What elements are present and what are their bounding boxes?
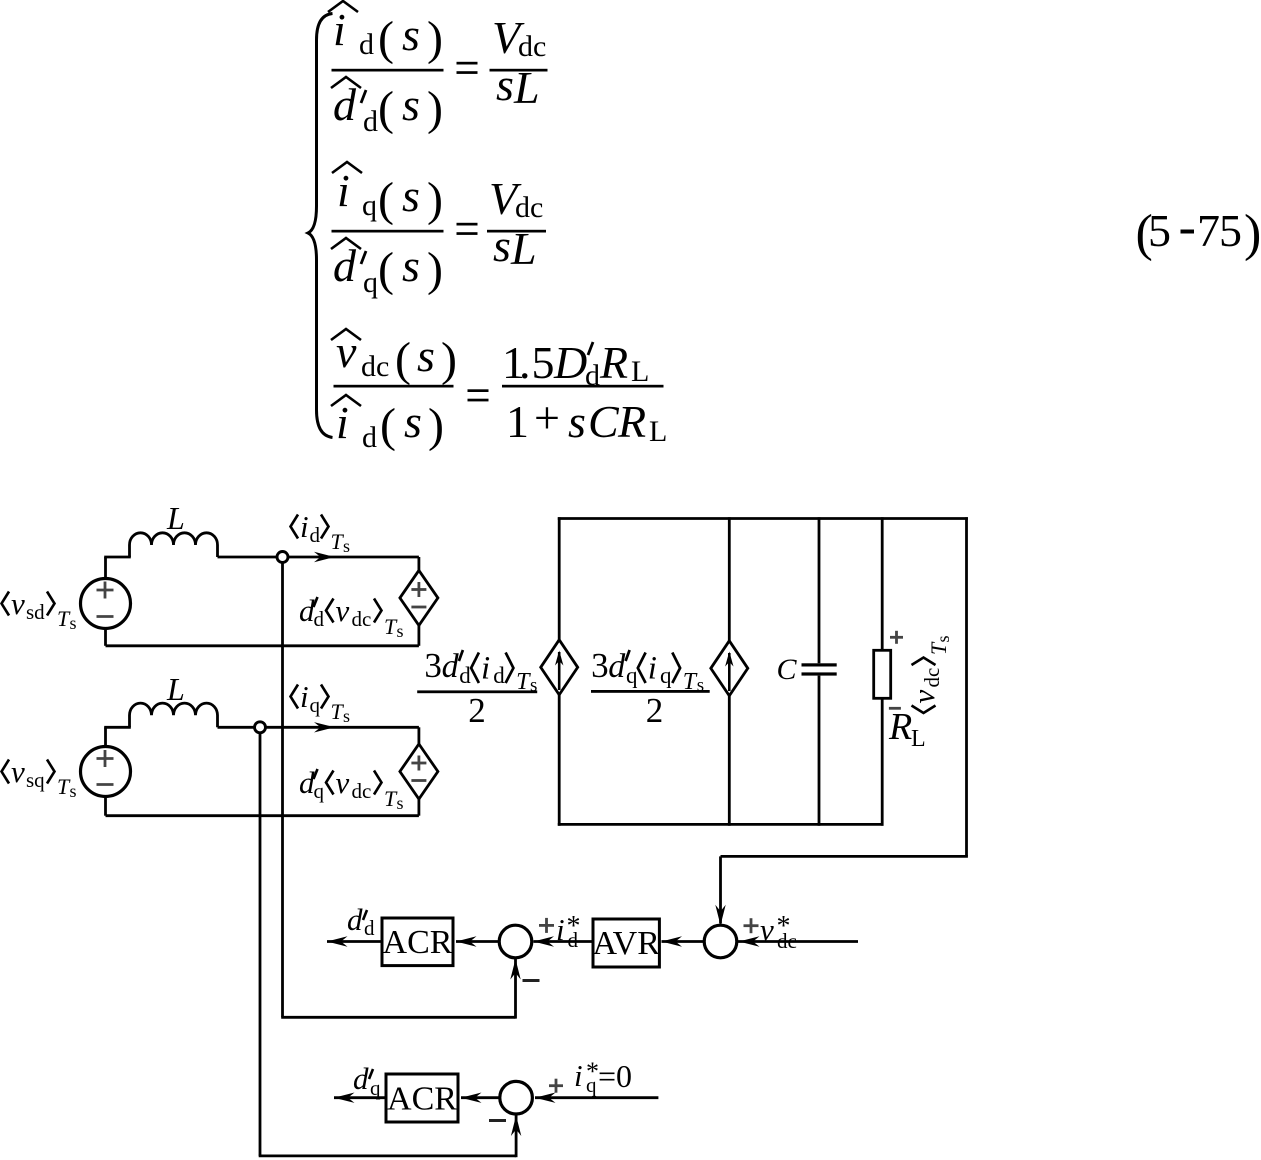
node i_d (small circle) — [277, 552, 288, 563]
svg-text:q: q — [363, 266, 378, 299]
dependent source plus mark (q) — [411, 762, 426, 765]
svg-text:sq: sq — [26, 768, 45, 792]
dependent voltage source d'_d<v_dc>Ts diamond — [400, 570, 438, 625]
label plus polarity (v_dc) — [890, 636, 903, 639]
wire: branch q-source vertical lower — [728, 696, 731, 826]
svg-text:d: d — [364, 916, 375, 940]
svg-text:d: d — [353, 1061, 369, 1096]
svg-text:3: 3 — [424, 646, 442, 685]
svg-text:7: 7 — [1197, 205, 1220, 256]
svg-text:(: ( — [378, 243, 394, 296]
svg-text:i: i — [300, 509, 309, 544]
svg-text:s: s — [404, 396, 422, 447]
voltage source Vsq plus mark — [97, 757, 114, 760]
svg-text:d: d — [314, 607, 325, 631]
wire: i_q feedback vertical from node — [259, 733, 262, 1156]
wire: v_dc sense right edge — [965, 517, 968, 856]
svg-text:+: + — [534, 392, 560, 443]
svg-text:d: d — [442, 648, 460, 685]
svg-text:5: 5 — [1148, 205, 1171, 256]
svg-text:AVR: AVR — [592, 925, 660, 962]
dependent source minus mark (d) — [411, 606, 426, 609]
wire: q-loop top left segment — [104, 726, 131, 729]
svg-text:L: L — [631, 355, 649, 388]
svg-text:s: s — [343, 706, 350, 726]
svg-text:s: s — [417, 330, 435, 381]
wire: diamond bottom stub (d) — [417, 625, 420, 645]
svg-text:5: 5 — [1219, 205, 1242, 256]
label minus polarity (v_dc) — [889, 707, 901, 710]
svg-text:q: q — [586, 1073, 597, 1097]
inductor L (d-axis) — [130, 533, 218, 557]
wire and arrow: i_q feedback rise into S3 — [515, 1116, 518, 1158]
equation 2 fraction bar (lhs) — [332, 230, 444, 233]
wire and arrow: v_dc* input into summer2 — [737, 940, 858, 943]
svg-text:s: s — [402, 170, 420, 221]
svg-text:d: d — [608, 648, 626, 685]
svg-text:i: i — [336, 397, 349, 448]
equation 3 denominator: hat i_d(s) — [331, 395, 361, 406]
svg-text:d: d — [359, 28, 374, 61]
svg-text:C: C — [777, 653, 798, 686]
svg-text:): ) — [427, 82, 443, 135]
node i_q (small circle) — [255, 722, 266, 733]
svg-text:1: 1 — [506, 396, 529, 447]
voltage source Vsd minus mark — [97, 615, 114, 618]
svg-text:ACR: ACR — [383, 924, 453, 961]
svg-text:v: v — [336, 593, 350, 628]
wire: load branch lower — [881, 698, 884, 825]
wire: diamond top stub (q) — [417, 727, 420, 744]
svg-text:s: s — [402, 79, 420, 130]
current source arrow (d) — [558, 652, 561, 690]
svg-text:q: q — [310, 693, 321, 717]
wire: v_dc sense drop into summer — [719, 856, 722, 923]
svg-text:d: d — [493, 663, 505, 688]
svg-text:2: 2 — [468, 691, 486, 730]
svg-text:L: L — [166, 500, 185, 536]
svg-text:): ) — [441, 333, 457, 386]
svg-text:5: 5 — [532, 337, 555, 388]
svg-text:D: D — [553, 337, 587, 388]
svg-text:(: ( — [380, 399, 396, 452]
svg-text:dc: dc — [352, 607, 372, 631]
wire and arrow: d'_q output — [334, 1096, 386, 1099]
svg-text:(: ( — [378, 12, 394, 65]
equation 3 numerator: hat v_dc(s) — [331, 329, 361, 340]
wire and arrow: d'_d output — [327, 940, 382, 943]
wire: q-loop left vertical — [104, 727, 107, 747]
svg-text:R: R — [888, 706, 912, 748]
svg-text:2: 2 — [646, 691, 664, 730]
svg-text:): ) — [427, 173, 443, 226]
equation 3 equals sign — [468, 389, 489, 392]
equation 1 equals sign — [457, 62, 478, 65]
block ACR (q-axis) — [386, 1074, 458, 1122]
wire and arrow: summer1 to ACR — [456, 940, 499, 943]
svg-text:q: q — [370, 1076, 381, 1100]
wire: dc bus top — [558, 517, 968, 520]
fraction bar (3d'_d<i_d>Ts/2) — [417, 690, 537, 693]
voltage source Vsd circle — [81, 579, 131, 629]
svg-text:v: v — [11, 586, 25, 621]
current source arrow (q) — [728, 653, 731, 691]
svg-text:d: d — [459, 663, 471, 688]
wire and arrow: AVR to summer1 — [534, 940, 594, 943]
svg-text:s: s — [493, 220, 511, 271]
dependent source minus mark (q) — [411, 779, 426, 782]
svg-text:i: i — [574, 1058, 583, 1093]
svg-text:): ) — [427, 243, 443, 296]
svg-text:): ) — [427, 12, 443, 65]
label minus at S3 feedback — [489, 1119, 506, 1122]
voltage source Vsd plus mark — [97, 589, 114, 592]
svg-text:R: R — [617, 396, 646, 447]
wire: d-loop top right segment — [218, 556, 419, 559]
wire: d-loop bottom — [106, 644, 419, 647]
svg-text:q: q — [660, 663, 672, 688]
wire and arrow: summer3 to ACR — [461, 1096, 500, 1099]
svg-text:=: = — [598, 1058, 616, 1094]
block ACR (d-axis) — [382, 918, 453, 966]
svg-text:dc: dc — [515, 191, 543, 224]
summing junction S1 — [499, 925, 532, 958]
svg-text:v: v — [11, 754, 25, 789]
wire: dc bus left edge lower — [558, 695, 561, 826]
wire: d-loop top left segment — [104, 556, 131, 559]
dependent voltage source d'_q<v_dc>Ts diamond — [400, 744, 438, 799]
svg-text:dc: dc — [361, 350, 389, 383]
label <v_sq>Ts — [2, 760, 10, 784]
svg-text:C: C — [588, 396, 620, 447]
current arrow i_d — [314, 552, 335, 562]
svg-text:s: s — [70, 613, 77, 633]
label plus at S2 — [744, 924, 759, 927]
svg-text:i: i — [648, 651, 657, 687]
svg-text:i: i — [300, 679, 309, 714]
svg-text:v: v — [336, 326, 357, 377]
equation 3 fraction bar (lhs) — [334, 385, 454, 388]
svg-text:q: q — [362, 189, 377, 222]
wire: dc bus left edge upper — [558, 517, 561, 640]
dependent source plus mark (d) — [411, 588, 426, 591]
fraction bar (3d'_q<i_q>Ts/2) — [591, 690, 710, 693]
label <v_dc>Ts rotated 90deg — [906, 635, 953, 713]
equation 2 numerator: hat i_q(s) — [332, 162, 362, 173]
label minus at S1 feedback — [523, 979, 540, 982]
wire and arrow: input into summer3 — [535, 1096, 658, 1099]
wire: dc bus bottom — [558, 823, 884, 826]
svg-text:(: ( — [378, 82, 394, 135]
svg-text:3: 3 — [591, 646, 609, 685]
wire: q-loop bottom — [106, 814, 419, 817]
label <v_sd>Ts — [2, 592, 10, 616]
equation 1 fraction bar (lhs) — [332, 69, 444, 72]
wire: capacitor branch lower — [818, 676, 821, 826]
label <i_d>Ts — [291, 515, 299, 539]
wire: d-loop left vertical — [104, 557, 107, 579]
capacitor C plates — [802, 663, 837, 666]
svg-text:(: ( — [395, 333, 411, 386]
svg-text:s: s — [933, 635, 953, 642]
svg-text:s: s — [343, 536, 350, 556]
svg-text:s: s — [70, 781, 77, 801]
svg-text:R: R — [599, 337, 628, 388]
svg-text:s: s — [568, 396, 586, 447]
svg-text:dc: dc — [352, 779, 372, 803]
label plus at S1 — [539, 924, 554, 927]
wire: i_d feedback horizontal — [281, 1016, 515, 1019]
svg-text:v: v — [906, 690, 941, 704]
svg-text:(: ( — [378, 173, 394, 226]
svg-text:q: q — [626, 663, 638, 688]
wire: v_dc sense horizontal — [721, 855, 968, 858]
voltage source Vsq minus mark — [97, 783, 114, 786]
svg-text:s: s — [697, 675, 704, 696]
inductor L (q-axis) — [130, 703, 218, 727]
summing junction S2 — [704, 925, 737, 958]
svg-text:): ) — [1244, 205, 1261, 262]
svg-text:d: d — [347, 902, 363, 937]
current arrow i_q — [314, 722, 335, 732]
label <i_q>Ts — [291, 685, 299, 709]
wire: diamond bottom stub (q) — [417, 799, 420, 816]
svg-text:v: v — [336, 765, 350, 800]
svg-text:q: q — [314, 779, 325, 803]
svg-text:.: . — [519, 337, 531, 388]
block AVR — [593, 919, 659, 967]
svg-text:s: s — [402, 9, 420, 60]
svg-text:L: L — [166, 671, 185, 707]
wire: q-loop top right segment — [218, 726, 419, 729]
svg-text:dc: dc — [518, 30, 546, 63]
wire: diamond top stub (d) — [417, 557, 420, 570]
wire and arrow: i_d feedback rise into S1 — [514, 959, 517, 1019]
label plus at S3 — [549, 1084, 563, 1087]
equation 1 fraction bar (rhs) — [490, 69, 548, 72]
equation 1 denominator: hat d'_d(s) — [331, 77, 361, 88]
svg-text:s: s — [496, 59, 514, 110]
wire and arrow: summer2 to AVR — [662, 940, 705, 943]
equation 2 equals sign — [457, 223, 478, 226]
equation 3 fraction bar (rhs) — [502, 385, 664, 388]
equation 2 denominator: hat d'_q(s) — [331, 238, 361, 249]
svg-text:sd: sd — [26, 600, 45, 624]
svg-text:d: d — [363, 105, 378, 138]
summing junction S3 — [500, 1081, 533, 1114]
wire: i_q feedback bottom horizontal — [259, 1155, 516, 1158]
voltage source Vsq circle — [81, 747, 131, 797]
resistor RL body — [874, 650, 891, 698]
wire: i_d feedback vertical from node — [281, 562, 284, 1017]
equation 1 numerator: hat i_d(s) — [328, 1, 358, 12]
svg-text:L: L — [513, 62, 540, 113]
svg-text:L: L — [510, 223, 537, 274]
wire: load branch upper — [881, 517, 884, 650]
svg-text:d: d — [568, 928, 579, 952]
svg-text:d: d — [333, 240, 357, 291]
svg-text:0: 0 — [616, 1058, 632, 1094]
wire: capacitor branch upper — [818, 517, 821, 663]
svg-text:d: d — [362, 421, 377, 454]
svg-text:s: s — [397, 793, 404, 813]
svg-text:s: s — [402, 240, 420, 291]
dependent current source 3d'_d<i_d>Ts/2 diamond — [541, 640, 578, 695]
svg-text:L: L — [911, 726, 926, 752]
svg-text:): ) — [428, 399, 444, 452]
svg-text:d: d — [310, 523, 321, 547]
svg-text:i: i — [337, 165, 350, 216]
left curly brace of equation system — [308, 14, 333, 438]
wire: branch q-source vertical upper — [728, 517, 731, 641]
svg-text:i: i — [481, 651, 490, 687]
svg-text:ACR: ACR — [387, 1081, 457, 1118]
equation 2 fraction bar (rhs) — [487, 230, 546, 233]
svg-text:L: L — [649, 415, 667, 448]
svg-text:d: d — [333, 79, 357, 130]
svg-text:s: s — [397, 621, 404, 641]
dependent current source 3d'_q<i_q>Ts/2 diamond — [711, 641, 748, 696]
svg-text:i: i — [333, 4, 346, 55]
svg-text:dc: dc — [920, 668, 944, 688]
